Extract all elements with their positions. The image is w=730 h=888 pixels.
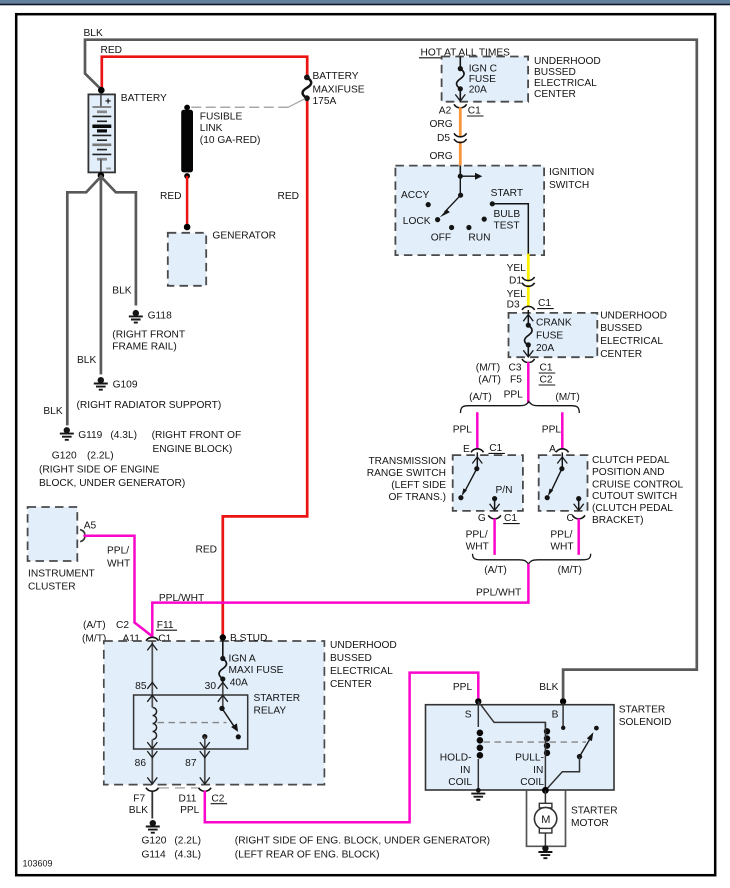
ground G109: [94, 377, 108, 390]
svg-text:BLK: BLK: [84, 28, 103, 39]
node B: [560, 698, 566, 704]
svg-text:PPL/: PPL/: [550, 530, 572, 541]
connector C: [572, 515, 585, 519]
svg-text:STARTER: STARTER: [254, 693, 301, 704]
node OFF: [449, 225, 454, 230]
svg-text:20A: 20A: [536, 343, 554, 354]
svg-text:PULL-: PULL-: [515, 753, 544, 764]
terminal 87 exit: [200, 749, 210, 784]
wire B to contact: [562, 703, 564, 728]
svg-text:YEL: YEL: [507, 263, 527, 274]
ground G120 relay: [146, 820, 160, 833]
svg-text:ELECTRICAL: ELECTRICAL: [600, 336, 663, 347]
svg-text:(LEFT REAR OF ENG. BLOCK): (LEFT REAR OF ENG. BLOCK): [235, 850, 380, 861]
svg-text:P/N: P/N: [496, 485, 513, 496]
fusible link: [181, 105, 193, 179]
connector A5: [80, 530, 85, 542]
svg-text:(A/T): (A/T): [484, 565, 507, 576]
wire PPL/WHT from G: [493, 520, 496, 554]
svg-text:BLOCK, UNDER GENERATOR): BLOCK, UNDER GENERATOR): [39, 478, 185, 489]
svg-text:40A: 40A: [230, 677, 248, 688]
svg-text:UNDERHOOD: UNDERHOOD: [330, 640, 397, 651]
svg-text:SWITCH: SWITCH: [549, 180, 589, 191]
relay coil: [153, 708, 157, 740]
ground starter motor: [538, 845, 552, 858]
label C2 underlined: [211, 793, 228, 804]
svg-text:(4.3L): (4.3L): [174, 850, 201, 861]
svg-text:PPL/: PPL/: [107, 545, 129, 556]
svg-text:(M/T): (M/T): [82, 633, 106, 644]
svg-text:RED: RED: [160, 191, 182, 202]
svg-text:POSITION AND: POSITION AND: [592, 467, 664, 478]
svg-text:(RIGHT SIDE OF ENGINE: (RIGHT SIDE OF ENGINE: [39, 464, 160, 475]
svg-text:CLUSTER: CLUSTER: [28, 582, 76, 593]
node B STUD: [220, 634, 226, 640]
transmission range switch box: [453, 455, 523, 511]
svg-text:BUSSED: BUSSED: [534, 67, 576, 78]
terminal 30 entry: [218, 682, 228, 709]
brace lower merge: [473, 554, 591, 564]
svg-text:INSTRUMENT: INSTRUMENT: [28, 569, 95, 580]
clutch pedal switch box: [539, 455, 588, 511]
svg-text:(M/T): (M/T): [558, 565, 582, 576]
svg-text:(CLUTCH PEDAL: (CLUTCH PEDAL: [592, 503, 673, 514]
node RUN: [466, 225, 471, 230]
splice D1: [522, 277, 535, 281]
fuse IGN A MAXI FUSE 40A: [219, 640, 227, 682]
svg-text:A: A: [549, 444, 556, 455]
wire A11 into relay: [151, 641, 153, 682]
svg-text:CENTER: CENTER: [330, 679, 372, 690]
node 87 contact: [200, 734, 210, 749]
svg-text:UNDERHOOD: UNDERHOOD: [600, 310, 667, 321]
svg-text:C2: C2: [540, 375, 553, 386]
svg-text:BATTERY: BATTERY: [313, 71, 359, 82]
svg-text:BLK: BLK: [129, 805, 148, 816]
svg-text:RED: RED: [196, 545, 218, 556]
svg-text:ORG: ORG: [430, 119, 453, 130]
hold-in coil: [477, 701, 484, 789]
svg-text:G119: G119: [78, 430, 102, 441]
svg-text:M: M: [541, 814, 550, 826]
svg-text:(4.3L): (4.3L): [110, 430, 137, 441]
terminal 86 exit: [147, 742, 157, 784]
splice D5: [454, 133, 467, 137]
svg-text:G114: G114: [142, 850, 166, 861]
node BULB TEST: [482, 217, 487, 222]
svg-text:YEL: YEL: [507, 289, 527, 300]
svg-text:CRUISE CONTROL: CRUISE CONTROL: [592, 479, 683, 490]
svg-text:START: START: [491, 188, 523, 199]
svg-text:TEST: TEST: [494, 220, 520, 231]
svg-text:MOTOR: MOTOR: [571, 818, 609, 829]
connector C1 at crank fuse box top: [522, 306, 535, 310]
wire S to pull-in coil: [478, 701, 545, 727]
svg-text:HOLD-: HOLD-: [440, 753, 472, 764]
fuse IGN C 20A: [455, 57, 465, 102]
svg-text:C2: C2: [211, 793, 224, 804]
svg-text:G120: G120: [52, 450, 77, 461]
brace upper split: [461, 402, 580, 414]
node solenoid output: [542, 787, 549, 794]
svg-text:A2: A2: [439, 106, 452, 117]
svg-text:PPL/WHT: PPL/WHT: [159, 593, 204, 604]
svg-text:(RIGHT SIDE OF ENG. BLOCK, UND: (RIGHT SIDE OF ENG. BLOCK, UNDER GENERAT…: [235, 836, 490, 847]
svg-text:LOCK: LOCK: [403, 216, 431, 227]
svg-text:103609: 103609: [23, 859, 53, 869]
UBEC fuse box (IGN C): [442, 57, 528, 102]
svg-text:STARTER: STARTER: [619, 705, 666, 716]
svg-text:RED: RED: [101, 45, 123, 56]
svg-text:C1: C1: [538, 298, 551, 309]
svg-text:(A/T): (A/T): [83, 620, 106, 631]
svg-text:C3: C3: [509, 363, 522, 374]
svg-text:(RIGHT FRONT OF: (RIGHT FRONT OF: [152, 430, 242, 441]
node LOCK: [435, 217, 440, 222]
ignition switch internals: [440, 166, 483, 218]
node S: [475, 698, 481, 704]
svg-text:86: 86: [135, 758, 147, 769]
svg-text:D1: D1: [509, 275, 522, 286]
svg-text:(10 GA-RED): (10 GA-RED): [200, 135, 261, 146]
svg-text:20A: 20A: [469, 84, 487, 95]
svg-text:COIL: COIL: [520, 777, 544, 788]
starter motor loop: [527, 791, 566, 847]
svg-text:85: 85: [135, 681, 147, 692]
svg-text:PPL/: PPL/: [466, 530, 488, 541]
connector A: [556, 449, 569, 453]
connector below crank fuse box: [522, 359, 535, 363]
connector C1 below fuse box: [454, 104, 467, 108]
svg-text:F7: F7: [133, 793, 145, 804]
UBEC crank fuse box: [509, 313, 598, 357]
svg-text:ENGINE BLOCK): ENGINE BLOCK): [153, 444, 233, 455]
connector E: [471, 449, 484, 453]
svg-text:ORG: ORG: [430, 151, 453, 162]
fuse CRANK 20A: [523, 310, 533, 357]
svg-text:PPL/WHT: PPL/WHT: [476, 588, 521, 599]
wire PPL to A (M/T branch): [561, 414, 564, 449]
svg-text:F11: F11: [157, 620, 174, 631]
wire PPL/WHT merged down and left to A11: [152, 565, 528, 637]
svg-text:BLK: BLK: [112, 286, 131, 297]
ground hold-in coil: [471, 788, 485, 800]
svg-text:(RIGHT FRONT: (RIGHT FRONT: [112, 329, 185, 340]
ignition switch box: [395, 166, 544, 256]
svg-text:(A/T): (A/T): [478, 375, 501, 386]
svg-text:C1: C1: [540, 363, 553, 374]
svg-text:E: E: [463, 444, 470, 455]
svg-text:BLK: BLK: [77, 355, 96, 366]
svg-text:87: 87: [185, 758, 197, 769]
svg-text:C2: C2: [116, 620, 129, 631]
svg-text:IN: IN: [533, 765, 543, 776]
svg-text:175A: 175A: [313, 96, 337, 107]
connector G: [488, 515, 501, 519]
wire PPL/WHT from C: [577, 520, 580, 554]
svg-text:PPL: PPL: [180, 805, 200, 816]
svg-text:WHT: WHT: [466, 541, 489, 552]
svg-text:WHT: WHT: [107, 559, 130, 570]
svg-text:CENTER: CENTER: [600, 349, 642, 360]
svg-text:(A/T): (A/T): [469, 392, 492, 403]
svg-text:IN: IN: [460, 765, 470, 776]
wire dashed link to maxifuse: [192, 106, 288, 108]
node START: [490, 201, 495, 206]
wire BLK battery to grounds (three branches): [67, 177, 136, 425]
svg-text:A5: A5: [84, 520, 97, 531]
ground G118: [129, 310, 143, 323]
svg-text:BUSSED: BUSSED: [330, 653, 372, 664]
svg-text:F5: F5: [510, 375, 522, 386]
switch clutch internals: [545, 452, 568, 500]
svg-text:OFF: OFF: [431, 233, 451, 244]
wire coil to 86: [151, 740, 153, 750]
svg-text:CUTOUT SWITCH: CUTOUT SWITCH: [592, 491, 677, 502]
label C1 underlined: [467, 106, 484, 117]
svg-text:UNDERHOOD: UNDERHOOD: [534, 56, 601, 67]
starter motor M: [534, 790, 556, 845]
label F11 C1 underlined: [156, 620, 177, 631]
wire PPL to E (A/T branch): [476, 414, 479, 449]
node P/N: [490, 485, 513, 511]
svg-text:G118: G118: [148, 311, 172, 322]
svg-text:+: +: [105, 96, 111, 108]
solenoid switch blade: [547, 726, 599, 790]
svg-text:C1: C1: [468, 106, 481, 117]
svg-text:BUSSED: BUSSED: [600, 323, 642, 334]
svg-text:FUSE: FUSE: [536, 330, 563, 341]
svg-text:BATTERY: BATTERY: [121, 93, 167, 104]
svg-text:COIL: COIL: [448, 777, 472, 788]
svg-text:G109: G109: [113, 380, 138, 391]
svg-text:IGNITION: IGNITION: [549, 167, 594, 178]
svg-text:MAXIFUSE: MAXIFUSE: [313, 84, 365, 95]
connector cups at UBEC bottom: [146, 788, 159, 792]
svg-text:D3: D3: [507, 299, 520, 310]
svg-text:RED: RED: [278, 191, 300, 202]
svg-text:30: 30: [205, 681, 217, 692]
starter relay box: [134, 695, 248, 749]
svg-text:MAXI FUSE: MAXI FUSE: [229, 665, 284, 676]
svg-text:PPL: PPL: [453, 682, 473, 693]
wire RED fusible link to generator: [186, 177, 189, 226]
svg-text:CRANK: CRANK: [536, 317, 572, 328]
svg-text:BLK: BLK: [43, 406, 62, 417]
svg-text:PPL: PPL: [504, 390, 524, 401]
svg-text:(LEFT SIDE: (LEFT SIDE: [391, 480, 446, 491]
relay switch blade: [219, 706, 241, 740]
svg-text:S: S: [465, 710, 472, 721]
svg-text:FUSIBLE: FUSIBLE: [200, 111, 243, 122]
connector A11 cup on box edge: [146, 637, 159, 641]
svg-text:B STUD: B STUD: [230, 633, 267, 644]
svg-text:(RIGHT RADIATOR SUPPORT): (RIGHT RADIATOR SUPPORT): [77, 400, 222, 411]
battery BATTERY: [88, 87, 115, 179]
switch TRS internals: [458, 452, 482, 500]
header dark line: [0, 4, 730, 6]
svg-text:B: B: [552, 710, 559, 721]
svg-text:BLK: BLK: [539, 682, 558, 693]
svg-text:PPL: PPL: [453, 424, 473, 435]
svg-text:(M/T): (M/T): [555, 392, 579, 403]
svg-text:D11: D11: [179, 793, 197, 804]
wire PPL from crank fuse: [527, 363, 530, 402]
fuse battery maxifuse 175A: [303, 75, 312, 102]
svg-text:BRACKET): BRACKET): [592, 515, 644, 526]
svg-text:(2.2L): (2.2L): [87, 450, 114, 461]
svg-text:RELAY: RELAY: [254, 705, 287, 716]
svg-text:OF TRANS.): OF TRANS.): [388, 492, 446, 503]
svg-text:LINK: LINK: [200, 123, 223, 134]
node ACCY: [426, 202, 431, 207]
wire RED main (battery positive to maxifuse and B stud): [102, 57, 307, 637]
wire PPL from D11 to solenoid S: [205, 673, 479, 823]
svg-text:G120: G120: [142, 836, 167, 847]
svg-text:D5: D5: [437, 133, 450, 144]
svg-text:ACCY: ACCY: [401, 190, 430, 201]
wire ORG: [459, 109, 462, 135]
svg-text:FRAME RAIL): FRAME RAIL): [112, 341, 177, 352]
svg-text:FUSE: FUSE: [469, 74, 496, 85]
svg-text:(M/T): (M/T): [476, 363, 500, 374]
UBEC starter relay box: [104, 641, 325, 785]
svg-text:SOLENOID: SOLENOID: [619, 717, 672, 728]
svg-text:C1: C1: [504, 513, 517, 524]
svg-text:CENTER: CENTER: [534, 89, 576, 100]
svg-text:(2.2L): (2.2L): [174, 836, 201, 847]
ground G119: [60, 427, 74, 440]
svg-text:ELECTRICAL: ELECTRICAL: [330, 666, 393, 677]
svg-text:IGN A: IGN A: [229, 653, 256, 664]
svg-text:TRANSMISSION: TRANSMISSION: [368, 456, 446, 467]
svg-text:CLUTCH PEDAL: CLUTCH PEDAL: [592, 455, 670, 466]
starter solenoid box: [426, 705, 615, 790]
svg-text:C: C: [567, 513, 574, 524]
wire F7 black to ground: [151, 792, 153, 819]
svg-text:STARTER: STARTER: [571, 805, 618, 816]
instrument cluster box: [28, 507, 78, 561]
svg-text:G: G: [478, 513, 486, 524]
wire BLK main (battery negative to solenoid B): [85, 40, 697, 699]
wire PPL/WHT from cluster: [85, 536, 152, 636]
relay dashed link: [158, 722, 227, 724]
wire START to box exit: [492, 204, 528, 255]
svg-text:ELECTRICAL: ELECTRICAL: [534, 78, 597, 89]
node C contact: [574, 496, 584, 510]
solenoid dashed link: [484, 741, 587, 743]
pull-in coil: [544, 722, 550, 790]
svg-text:PPL: PPL: [542, 424, 562, 435]
svg-text:C1: C1: [489, 443, 502, 454]
wire YEL: [527, 255, 530, 280]
svg-text:GENERATOR: GENERATOR: [212, 230, 276, 241]
svg-text:BULB: BULB: [494, 209, 521, 220]
svg-text:WHT: WHT: [550, 541, 573, 552]
svg-text:RUN: RUN: [468, 233, 490, 244]
terminal 85 entry: [147, 682, 157, 708]
svg-text:RANGE SWITCH: RANGE SWITCH: [367, 468, 446, 479]
generator box: [168, 224, 206, 286]
header blue bar: [0, 0, 730, 4]
